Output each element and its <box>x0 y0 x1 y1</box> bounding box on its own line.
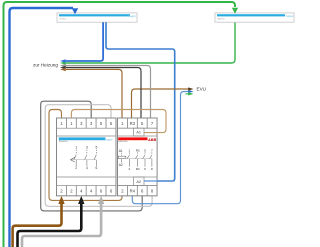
svg-text:3: 3 <box>86 145 88 149</box>
svg-text:EIN 463-63: EIN 463-63 <box>59 141 68 143</box>
svg-text:5: 5 <box>144 148 146 152</box>
svg-text:4: 4 <box>86 166 88 170</box>
svg-text:R4: R4 <box>136 167 140 171</box>
svg-text:7: 7 <box>151 148 153 152</box>
svg-text:2: 2 <box>129 167 131 171</box>
svg-text:ESB24-40N: ESB24-40N <box>118 141 128 143</box>
svg-text:hager: hager <box>105 137 114 141</box>
svg-text:MBN B16: MBN B16 <box>218 19 225 21</box>
svg-text:EVU: EVU <box>197 87 206 92</box>
svg-text:A2: A2 <box>119 163 123 167</box>
svg-text:SLS B25: SLS B25 <box>60 19 67 21</box>
svg-text:6: 6 <box>95 166 97 170</box>
svg-text:R4: R4 <box>130 188 136 193</box>
svg-text:hager: hager <box>286 14 295 18</box>
svg-text:hager: hager <box>128 14 137 18</box>
svg-text:zur Heizung: zur Heizung <box>33 63 58 68</box>
svg-text:2: 2 <box>75 166 77 170</box>
svg-text:A2: A2 <box>136 180 141 184</box>
svg-text:A1: A1 <box>119 149 123 153</box>
svg-text:8: 8 <box>151 167 153 171</box>
svg-text:1: 1 <box>75 145 77 149</box>
svg-text:ABB: ABB <box>147 138 156 142</box>
svg-text:R3: R3 <box>130 121 136 126</box>
svg-text:6: 6 <box>144 167 146 171</box>
svg-text:5: 5 <box>95 145 97 149</box>
svg-text:1: 1 <box>129 148 131 152</box>
svg-text:A1: A1 <box>136 130 141 134</box>
svg-text:R3: R3 <box>136 148 140 152</box>
